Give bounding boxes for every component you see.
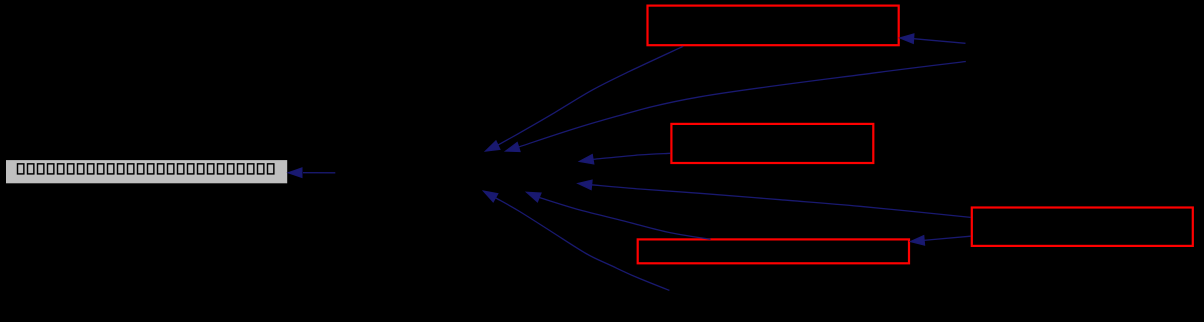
- red caller box B (middle): [671, 124, 873, 163]
- edge E4: caller B to hidden mid node: [579, 153, 670, 164]
- edge E9: caller D to caller C: [910, 235, 971, 245]
- gray current-function node (label glyphs missing, shown as tofu boxes): [6, 160, 287, 183]
- edge E1: hidden mid node to gray node: [288, 168, 336, 178]
- red caller box D (right): [972, 208, 1193, 246]
- edge E2: caller A to hidden mid node: [485, 46, 683, 151]
- edge E3: hidden right node to hidden mid node: [505, 62, 966, 152]
- edge E5: caller D to hidden mid node: [577, 180, 970, 218]
- edge E7: caller C to hidden mid node: [526, 192, 711, 239]
- edge E6: hidden bottom node to hidden mid node: [483, 191, 669, 291]
- red caller box A (top): [648, 6, 899, 46]
- red caller box C (lower middle): [638, 239, 909, 263]
- edge E8: hidden right node to caller A: [899, 34, 965, 44]
